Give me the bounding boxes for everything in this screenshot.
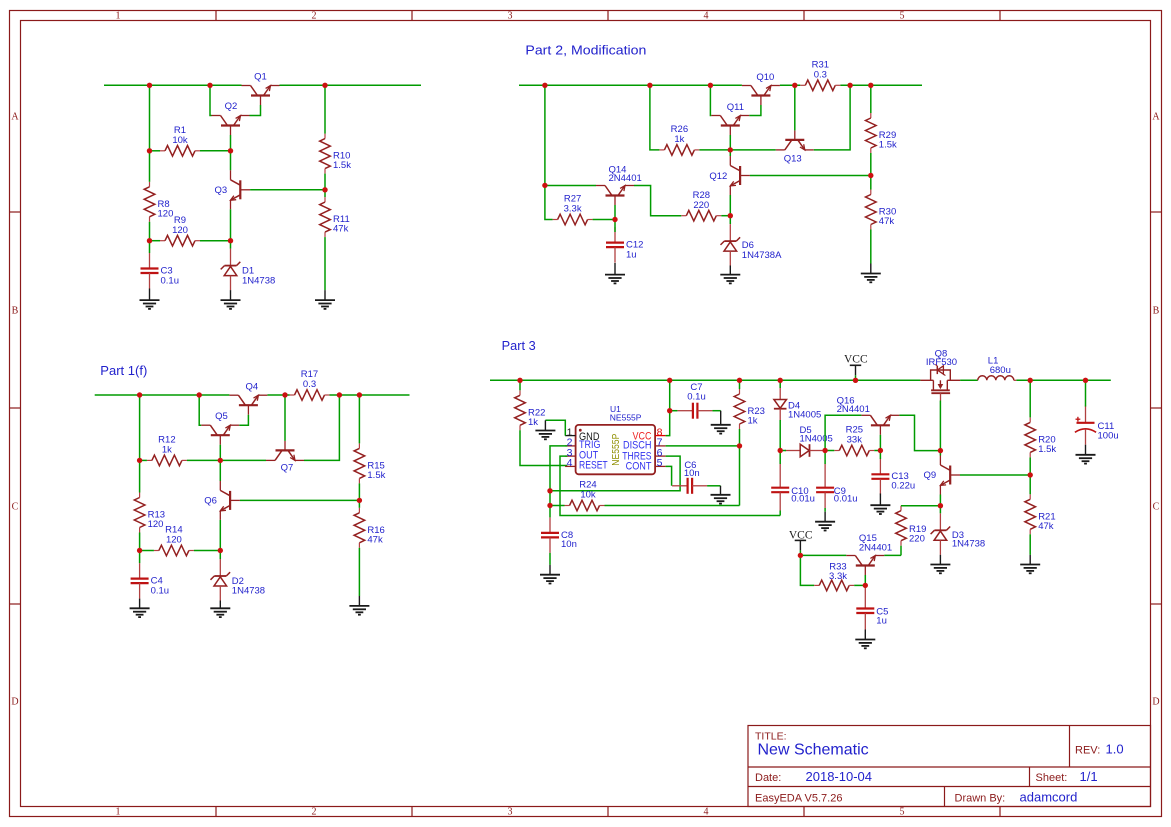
title block [748, 726, 1151, 807]
svg-text:10k: 10k [172, 135, 188, 146]
junction [147, 83, 152, 88]
svg-text:47k: 47k [333, 224, 349, 235]
wire R24 right [605, 505, 740, 507]
resistor R1 [160, 125, 200, 156]
svg-text:EasyEDA V5.7.26: EasyEDA V5.7.26 [755, 793, 842, 805]
resistor R25 [834, 425, 874, 456]
svg-text:1.0: 1.0 [1106, 741, 1124, 756]
wire Q6 emitter down [219, 520, 221, 551]
svg-text:Q4: Q4 [245, 381, 258, 392]
junction [517, 378, 522, 383]
svg-text:A: A [11, 112, 19, 123]
svg-text:Date:: Date: [755, 772, 781, 784]
svg-text:RESET: RESET [579, 460, 608, 472]
transistor Q14 [596, 165, 642, 206]
junction [847, 83, 852, 88]
svg-text:5: 5 [657, 457, 663, 469]
wire D4 to D5 [780, 450, 786, 452]
svg-text:1: 1 [116, 807, 121, 818]
wire R23 top [739, 380, 741, 389]
transistor Q1 [242, 72, 280, 106]
ground stem D2 [219, 601, 221, 609]
wire Q7 base up [284, 395, 286, 441]
wire R20 bottom [1029, 457, 1031, 475]
junction [863, 583, 868, 588]
wire Q16 base down [879, 435, 881, 451]
resistor R20 [1025, 417, 1057, 457]
ground R11 [315, 300, 335, 309]
svg-text:Q12: Q12 [709, 171, 727, 182]
op-amp U1 NE555P [565, 404, 666, 474]
svg-text:Part 2, Modification: Part 2, Modification [525, 44, 646, 58]
svg-text:0.01u: 0.01u [834, 494, 858, 505]
wire part1f rail mid [267, 394, 289, 396]
junction [667, 408, 672, 413]
wire R25 right [874, 450, 880, 452]
wire Q9 collector up [939, 451, 941, 456]
resistor R9 [160, 215, 200, 246]
junction [708, 83, 713, 88]
wire pin3 OUT [560, 456, 780, 515]
wire pin6 THRES [550, 456, 680, 491]
wire C9 top [824, 451, 826, 465]
ground stem pin1 [544, 420, 546, 430]
svg-text:Q13: Q13 [784, 154, 802, 165]
wire R1 left [150, 150, 161, 152]
svg-text:1N4738: 1N4738 [952, 539, 985, 550]
svg-text:1k: 1k [748, 416, 758, 427]
wire Q14 emitter to R28 [634, 186, 681, 216]
wire Q9 base to divider [960, 474, 1030, 476]
capacitor C13 0.22u [871, 459, 915, 495]
svg-text:3: 3 [508, 11, 513, 22]
junction [218, 548, 223, 553]
wire D4 bottom [779, 420, 781, 451]
wire R13 bottom [139, 533, 141, 551]
wire R9 right [200, 240, 231, 242]
wire node to Q13 [730, 149, 776, 151]
wire C3 top [149, 241, 151, 253]
svg-text:4: 4 [704, 11, 709, 22]
transistor Q5 [201, 411, 239, 445]
wire part1f rail right [330, 394, 410, 396]
wire Q12 base to divider [750, 175, 871, 177]
svg-text:Q5: Q5 [215, 411, 228, 422]
resistor R11 [320, 197, 350, 237]
wire top rail right segment [280, 84, 422, 86]
resistor R29 [866, 113, 898, 153]
svg-text:1.5k: 1.5k [879, 140, 897, 151]
wire rail to R8 column [149, 85, 151, 151]
wire R29 top [870, 85, 872, 113]
wire VCC2 stem down [799, 550, 801, 555]
junction [798, 553, 803, 558]
capacitor C11 [1075, 406, 1119, 445]
ground D6 [720, 275, 740, 284]
svg-text:IRF530: IRF530 [926, 357, 957, 368]
svg-text:CONT: CONT [626, 461, 652, 473]
wire R1 right [200, 150, 231, 152]
svg-text:4: 4 [704, 807, 709, 818]
svg-text:3.3k: 3.3k [564, 204, 582, 215]
svg-text:0.1u: 0.1u [151, 585, 170, 596]
wire R9 left [150, 240, 161, 242]
svg-text:0.1u: 0.1u [161, 275, 180, 286]
wire Q14 base down [614, 205, 616, 220]
wire C11 top [1085, 380, 1087, 406]
wire R16 bottom [358, 548, 360, 596]
transistor Q13 [776, 130, 814, 164]
wire R12 left [140, 459, 147, 461]
svg-text:VCC: VCC [789, 529, 813, 541]
ground stem D6 [729, 266, 731, 275]
junction [1028, 378, 1033, 383]
junction [667, 378, 672, 383]
svg-text:C: C [12, 502, 19, 513]
wire Q3 base to divider [250, 189, 325, 191]
svg-text:5: 5 [900, 11, 905, 22]
svg-text:1/1: 1/1 [1080, 769, 1098, 784]
capacitor C7 0.1u [677, 382, 712, 419]
junction [938, 448, 943, 453]
wire D4 top [779, 380, 781, 388]
wire Q2 collector to Q1 base [250, 105, 261, 116]
svg-text:1u: 1u [876, 615, 887, 626]
svg-text:2N4401: 2N4401 [609, 173, 642, 184]
svg-text:10k: 10k [580, 490, 596, 501]
junction [728, 147, 733, 152]
ground C3 [140, 300, 160, 309]
ground stem C6 [720, 486, 722, 495]
capacitor C6 10n [672, 460, 707, 494]
resistor R14 [154, 525, 194, 556]
svg-text:100u: 100u [1098, 430, 1119, 441]
ground R16 [349, 606, 369, 615]
svg-text:47k: 47k [1038, 521, 1054, 532]
wire R28 right [721, 215, 730, 217]
wire Q12 emitter down [729, 195, 731, 216]
wire rail to Q2 [210, 85, 212, 115]
resistor R13 [134, 493, 165, 533]
ground R30 [861, 274, 881, 283]
svg-text:1k: 1k [674, 134, 684, 145]
wire R22 top [519, 380, 521, 390]
svg-text:Q7: Q7 [281, 463, 294, 474]
transistor Q6 [204, 481, 240, 520]
junction [728, 213, 733, 218]
svg-text:1k: 1k [528, 417, 538, 428]
ground stem C8 [549, 565, 551, 575]
wire part3 rail right [1016, 379, 1111, 381]
wire D1 top [230, 241, 232, 249]
svg-text:REV:: REV: [1075, 744, 1100, 756]
ground pin1 [535, 431, 555, 440]
svg-text:1.5k: 1.5k [367, 470, 385, 481]
wire R12 right [187, 459, 220, 461]
svg-text:Q6: Q6 [204, 496, 217, 507]
svg-text:Q9: Q9 [923, 470, 936, 481]
wire R8 bottom [149, 222, 151, 241]
wire R11 bottom [324, 237, 326, 290]
ground C7 [711, 425, 731, 434]
resistor R24 [565, 480, 605, 511]
transistor Q9 [923, 456, 960, 495]
wire R24 left [550, 505, 565, 507]
svg-text:B: B [1153, 306, 1160, 317]
svg-text:2N4401: 2N4401 [837, 404, 870, 415]
ground stem C5 [864, 630, 866, 640]
junction [542, 83, 547, 88]
wire R14 left [140, 550, 154, 552]
resistor R23 [734, 389, 765, 429]
ground stem R30 [870, 264, 872, 274]
wire part2 rail left [519, 84, 742, 86]
svg-text:Drawn By:: Drawn By: [955, 793, 1006, 805]
svg-text:Part 3: Part 3 [502, 339, 536, 353]
zener diode D3 [931, 513, 986, 555]
wire node to Q7 [220, 459, 266, 461]
ground stem R11 [324, 290, 326, 300]
junction [137, 458, 142, 463]
svg-text:Q10: Q10 [756, 72, 774, 83]
inductor L1 [978, 356, 1017, 381]
svg-text:120: 120 [158, 208, 174, 219]
svg-text:Sheet:: Sheet: [1036, 772, 1068, 784]
svg-text:1k: 1k [162, 445, 172, 456]
junction [197, 392, 202, 397]
wire C10 bottom to OUT line [779, 511, 781, 516]
wire pin7 DISCH [666, 445, 740, 447]
wire Q15 right pin [884, 554, 901, 556]
svg-text:adamcord: adamcord [1020, 790, 1078, 805]
wire rail to Q11 [709, 85, 712, 115]
ground stem R16 [358, 596, 360, 606]
wire C7 left [670, 410, 678, 412]
wire pin8 VCC to rail [666, 380, 670, 435]
junction [868, 173, 873, 178]
resistor R30 [866, 190, 897, 230]
junction [228, 148, 233, 153]
wire Q5 base down [219, 445, 221, 461]
wire R10 to R11 [324, 174, 326, 198]
junction [322, 83, 327, 88]
wire R27 right [593, 219, 615, 221]
ground D3 [930, 565, 950, 574]
ground D2 [210, 608, 230, 617]
wire C7 right [712, 410, 720, 412]
wire D2 top [219, 551, 221, 560]
resistor R21 [1025, 494, 1056, 534]
junction [547, 503, 552, 508]
wire R30 top [870, 176, 872, 190]
junction [147, 148, 152, 153]
transistor Q3 [215, 170, 251, 209]
svg-text:120: 120 [166, 535, 182, 546]
transistor Q12 [709, 156, 750, 195]
junction [282, 392, 287, 397]
resistor R19 [896, 506, 927, 546]
svg-text:2N4401: 2N4401 [859, 542, 892, 553]
junction [938, 503, 943, 508]
transistor Q11 [711, 102, 749, 135]
svg-text:B: B [12, 306, 19, 317]
ground stem R21 [1029, 555, 1031, 565]
svg-text:33k: 33k [847, 435, 863, 446]
ground stem C9 [824, 512, 826, 522]
wire rail to Q14 column [544, 85, 546, 185]
power VCC main rail [844, 353, 868, 375]
wire Q13 base up [794, 85, 796, 130]
resistor R16 [354, 508, 385, 548]
wire part2 rail right [840, 84, 922, 86]
wire R15 bottom [358, 483, 360, 500]
wire rail to R12 column [139, 395, 141, 460]
resistor R10 [320, 134, 352, 174]
svg-text:3: 3 [508, 807, 513, 818]
svg-text:0.22u: 0.22u [891, 480, 915, 491]
junction [792, 83, 797, 88]
resistor R8 [144, 182, 173, 222]
wire part3 rail mid [960, 379, 978, 381]
wire R22 to RESET [520, 430, 567, 465]
junction [137, 392, 142, 397]
ground stem D1 [230, 290, 232, 300]
junction [737, 443, 742, 448]
wire part1f rail left [95, 394, 230, 396]
svg-text:NE555P: NE555P [610, 413, 642, 423]
ground stem D3 [939, 555, 941, 565]
wire R21 bottom [1029, 534, 1031, 555]
ground stem C4 [139, 599, 141, 609]
wire rail to Q5 [199, 395, 201, 425]
junction [1083, 378, 1088, 383]
capacitor C4 0.1u [131, 563, 170, 599]
junction [207, 83, 212, 88]
resistor R33 [814, 562, 854, 591]
svg-text:C: C [1153, 502, 1160, 513]
svg-text:120: 120 [148, 519, 164, 530]
wire R25 left [825, 450, 834, 452]
junction [778, 448, 783, 453]
svg-text:120: 120 [172, 225, 188, 236]
resistor R31 [800, 60, 840, 91]
wire C13 top [879, 451, 881, 460]
svg-text:2: 2 [312, 807, 317, 818]
zener diode D2 [211, 559, 266, 601]
wire C9 bottom [824, 508, 826, 512]
wire R10 top [324, 85, 326, 133]
junction [778, 378, 783, 383]
wire pin5 CONT [666, 466, 672, 485]
wire Q11 collector to Q10 base [749, 105, 761, 116]
wire pin2 TRIG [550, 446, 567, 506]
wire DISCH node down [739, 446, 741, 506]
ground stem C7 [720, 411, 722, 425]
junction [547, 488, 552, 493]
junction [322, 187, 327, 192]
junction [612, 217, 617, 222]
svg-text:10n: 10n [684, 468, 700, 479]
wire Q6 base to divider [240, 499, 360, 501]
ground C4 [130, 608, 150, 617]
wire C12 top [614, 220, 616, 233]
svg-text:1N4005: 1N4005 [800, 434, 833, 445]
svg-text:47k: 47k [879, 216, 895, 227]
ground C8 [540, 575, 560, 584]
svg-text:Q2: Q2 [225, 101, 238, 112]
wire Q15 base down [864, 575, 866, 585]
svg-text:0.3: 0.3 [303, 379, 316, 390]
wire R8 top [149, 151, 151, 182]
wire C8 top [549, 506, 551, 518]
wire Q14 col to R27 [545, 185, 553, 219]
wire Q16 right pin [899, 415, 940, 450]
ground R21 [1020, 565, 1040, 574]
svg-text:0.3: 0.3 [814, 70, 827, 81]
wire Q14 left pin [545, 185, 596, 187]
svg-text:10n: 10n [561, 539, 577, 550]
svg-text:Q1: Q1 [254, 72, 267, 83]
svg-text:5: 5 [900, 807, 905, 818]
transistor Q16 [837, 395, 900, 435]
wire rail to R26 [650, 85, 660, 150]
wire Q16 left pin [825, 415, 861, 450]
wire R16 top [358, 500, 360, 507]
junction [542, 183, 547, 188]
diode D4 [774, 387, 821, 421]
wire C4 top [139, 551, 141, 564]
wire R19 bottom [900, 546, 902, 556]
capacitor C12 1u [606, 227, 643, 263]
wire D3 top [939, 506, 941, 514]
ground C6 [711, 495, 731, 504]
transistor Q8 IRF530 [920, 348, 960, 400]
svg-text:D: D [11, 697, 18, 708]
svg-text:1: 1 [116, 11, 121, 22]
ground stem C11 [1085, 445, 1087, 455]
svg-text:3.3k: 3.3k [829, 571, 847, 582]
diode D5 [785, 425, 833, 457]
wire Q13 right pin to rail [814, 85, 850, 150]
junction [137, 548, 142, 553]
junction [357, 498, 362, 503]
wire Q3 emitter down [230, 209, 232, 240]
wire R29 bottom [870, 153, 872, 176]
svg-text:D: D [1152, 697, 1159, 708]
junction [868, 83, 873, 88]
svg-text:2: 2 [312, 11, 317, 22]
wire D6 top [729, 216, 731, 224]
wire VCC stem to rail [855, 375, 857, 380]
wire C10 top [779, 451, 781, 465]
capacitor C10 0.01u [771, 464, 815, 511]
junction [647, 83, 652, 88]
svg-text:1.5k: 1.5k [1038, 444, 1056, 455]
resistor R15 [354, 443, 386, 483]
ground C11 [1076, 455, 1096, 464]
wire R21 top [1029, 475, 1031, 494]
ground D1 [221, 300, 241, 309]
transistor Q10 [742, 72, 780, 105]
svg-text:Part 1(f): Part 1(f) [100, 364, 147, 378]
svg-text:A: A [1152, 112, 1160, 123]
wire VCC2 to R33 [800, 555, 814, 585]
wire part2 rail mid [780, 84, 800, 86]
zener diode D6 [721, 224, 783, 266]
junction [878, 448, 883, 453]
capacitor C9 0.01u [816, 464, 857, 509]
resistor R28 [681, 190, 721, 221]
